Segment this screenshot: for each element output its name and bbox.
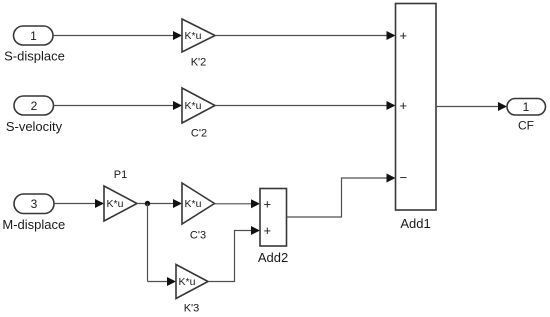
svg-text:CF: CF — [518, 118, 534, 132]
svg-text:Add2: Add2 — [258, 250, 288, 265]
svg-text:K*u: K*u — [185, 100, 202, 112]
arrowhead into C'2 — [173, 101, 182, 110]
gain K'3 — [176, 265, 208, 299]
svg-text:M-displace: M-displace — [2, 217, 65, 232]
arrowhead into P1 — [95, 199, 104, 208]
arrowhead into Add2 plus2 — [251, 226, 260, 235]
wire C'2 to Add1 plus2 — [215, 105, 387, 107]
inport 1 — [14, 26, 54, 45]
svg-text:C'3: C'3 — [190, 230, 206, 242]
svg-text:−: − — [400, 170, 408, 185]
wire junction down to K'3 row — [147, 204, 149, 282]
svg-text:1: 1 — [523, 100, 530, 114]
arrowhead into K'3 — [167, 277, 176, 286]
arrowhead into Add1 plus1 — [387, 31, 396, 40]
svg-text:+: + — [400, 98, 408, 113]
gain P1 — [104, 186, 137, 221]
arrowhead into Add2 plus1 — [251, 199, 260, 208]
wire K'3 to Add2 plus2 — [208, 231, 252, 282]
svg-text:Add1: Add1 — [400, 216, 430, 231]
sum block Add1 — [396, 4, 437, 211]
wire Add2 to Add1 minus — [287, 178, 388, 217]
wire K'2 to Add1 plus1 — [215, 35, 387, 37]
sum block Add2 — [260, 189, 287, 247]
svg-text:S-displace: S-displace — [4, 48, 65, 63]
svg-text:S-velocity: S-velocity — [6, 119, 63, 134]
wire inport2 to C'2 — [54, 105, 175, 107]
wire inport3 to P1 — [54, 203, 96, 205]
gain K'2 — [182, 19, 215, 52]
inport 3 — [14, 194, 54, 214]
arrowhead into K'2 — [173, 31, 182, 40]
gain C'2 — [182, 88, 215, 123]
svg-text:K*u: K*u — [185, 30, 202, 42]
svg-text:3: 3 — [31, 197, 38, 211]
svg-text:K'3: K'3 — [184, 303, 200, 315]
gain C'3 — [182, 183, 215, 224]
svg-text:K*u: K*u — [185, 198, 202, 210]
svg-text:C'2: C'2 — [191, 128, 207, 140]
junction node after P1 — [145, 201, 150, 206]
arrowhead into outport — [498, 102, 507, 111]
svg-text:K'2: K'2 — [191, 57, 207, 69]
wire C'3 to Add2 plus1 — [215, 203, 253, 205]
svg-text:K*u: K*u — [107, 198, 124, 210]
svg-text:+: + — [264, 197, 272, 212]
svg-text:+: + — [264, 223, 272, 238]
inport 2 — [14, 96, 54, 115]
wire junction row to K'3 — [148, 281, 169, 283]
wire P1 to C'3 — [137, 203, 174, 205]
arrowhead into Add1 plus2 — [387, 101, 396, 110]
wire Add1 to outport CF — [436, 106, 498, 108]
arrowhead into C'3 — [173, 199, 182, 208]
svg-text:+: + — [400, 28, 408, 43]
arrowhead into Add1 minus — [387, 174, 396, 183]
outport 1 — [507, 99, 546, 116]
svg-text:P1: P1 — [114, 169, 127, 181]
svg-text:2: 2 — [31, 99, 38, 113]
svg-text:K*u: K*u — [179, 276, 196, 288]
wire inport1 to K'2 — [53, 35, 174, 37]
svg-text:1: 1 — [30, 29, 37, 43]
